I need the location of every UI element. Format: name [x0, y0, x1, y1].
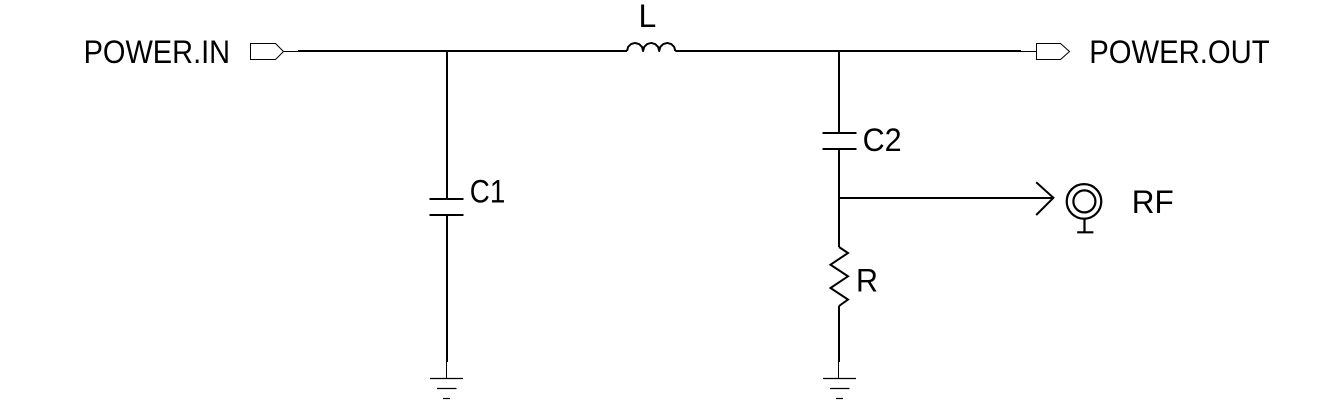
capacitor C2 — [823, 133, 857, 149]
port POWER.OUT — [1021, 44, 1070, 60]
port POWER.IN — [251, 44, 300, 60]
svg-text:POWER.IN: POWER.IN — [84, 34, 231, 70]
wire RF branch — [838, 197, 1053, 199]
svg-text:C2: C2 — [863, 122, 902, 158]
wire main right — [675, 50, 1021, 52]
RF connector symbol — [1067, 184, 1102, 232]
wire R lower — [838, 306, 841, 378]
wire C2 branch upper — [838, 50, 840, 132]
capacitor C1 — [430, 199, 464, 215]
svg-text:L: L — [639, 0, 657, 34]
inductor L — [627, 43, 675, 51]
svg-text:RF: RF — [1132, 184, 1174, 220]
ground under R — [823, 379, 856, 399]
arrow — [1036, 182, 1053, 215]
svg-text:R: R — [856, 263, 878, 299]
svg-text:POWER.OUT: POWER.OUT — [1089, 34, 1270, 70]
resistor R — [831, 247, 849, 306]
wire C2 to resistor — [838, 150, 840, 247]
wire C1 branch upper — [446, 50, 448, 198]
wire C1 lower — [446, 216, 449, 378]
svg-text:C1: C1 — [470, 173, 506, 209]
ground under C1 — [430, 379, 463, 399]
wire main left — [298, 50, 627, 52]
